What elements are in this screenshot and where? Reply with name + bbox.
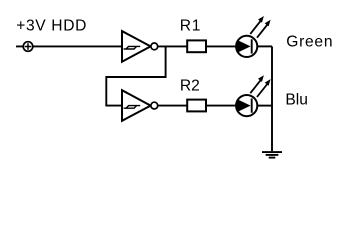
svg-text:R2: R2 — [180, 78, 200, 95]
svg-text:+3V HDD: +3V HDD — [16, 17, 87, 34]
svg-text:Blu: Blu — [285, 92, 308, 109]
svg-text:Green: Green — [286, 34, 333, 51]
svg-text:R1: R1 — [180, 18, 201, 35]
